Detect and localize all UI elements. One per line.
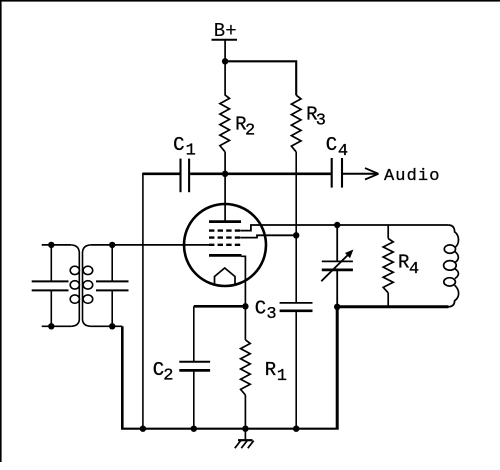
wire T1 to ground bus riser xyxy=(121,326,124,428)
label R2 xyxy=(235,114,255,141)
variable capacitor VC top lead xyxy=(336,225,338,261)
wire cathode node to C2 xyxy=(194,305,246,308)
capacitor C3 xyxy=(280,303,313,311)
wire ground bus xyxy=(121,428,339,430)
node bus C2 xyxy=(191,426,197,432)
node plate/audio junction xyxy=(222,171,228,177)
node tank top xyxy=(334,222,340,228)
svg-text:4: 4 xyxy=(409,260,419,279)
label R1 xyxy=(265,359,287,386)
svg-text:1: 1 xyxy=(277,367,287,386)
wire cathode lead xyxy=(241,256,245,306)
node bus R1/ground xyxy=(242,426,248,432)
capacitor C4 xyxy=(332,158,342,188)
wire audio line middle segment xyxy=(190,173,331,176)
wire R4 bottom lead xyxy=(387,293,389,307)
capacitor C2 xyxy=(179,362,210,371)
svg-text:3: 3 xyxy=(266,305,276,324)
wire B+ node to R3 branch xyxy=(225,61,296,95)
wire tank top line xyxy=(337,224,448,226)
variable capacitor VC bottom lead xyxy=(336,271,338,307)
wire C3 to ground bus xyxy=(295,312,297,429)
transformer T1 bottom line right xyxy=(91,325,123,327)
resistor R4 xyxy=(383,239,393,293)
border frame top xyxy=(0,0,500,2)
tube cathode xyxy=(209,254,242,257)
node T1 top right xyxy=(109,242,115,248)
tube grid 2 dashes xyxy=(209,236,240,238)
wire C1 left riser xyxy=(142,173,144,429)
svg-text:2: 2 xyxy=(245,121,255,140)
svg-text:R: R xyxy=(265,359,276,381)
wire audio line left segment xyxy=(143,173,180,176)
transformer T1 primary winding xyxy=(70,245,79,326)
wire R4 top lead xyxy=(387,225,389,239)
label C4 xyxy=(326,134,348,161)
wire audio arrow line xyxy=(343,173,378,175)
transformer T1 top line left xyxy=(42,244,71,246)
ground stub xyxy=(244,429,246,441)
label C3 xyxy=(255,298,277,325)
svg-text:3: 3 xyxy=(316,111,326,130)
node bus C3 xyxy=(293,426,299,432)
B+ terminal bar xyxy=(212,39,238,41)
capacitor C1 xyxy=(181,159,190,193)
node bus C1 riser xyxy=(140,426,146,432)
label R3 xyxy=(306,104,326,131)
resistor R2 xyxy=(220,95,230,152)
tube grid 1 (screen) dashes xyxy=(209,229,240,231)
inductor L1 coil xyxy=(444,225,459,307)
resistor R3 xyxy=(291,95,301,152)
svg-text:R: R xyxy=(398,252,409,274)
svg-text:Audio: Audio xyxy=(384,167,441,186)
node T1 bottom left xyxy=(48,323,54,329)
capacitor across secondary xyxy=(96,245,129,326)
svg-text:C: C xyxy=(326,134,337,156)
node tank bottom xyxy=(334,304,340,310)
wire C2 top lead xyxy=(193,306,195,361)
node T1 bottom right xyxy=(109,323,115,329)
svg-text:4: 4 xyxy=(338,142,348,161)
wire R1 top lead xyxy=(244,306,246,340)
svg-text:C: C xyxy=(255,298,266,320)
border frame left xyxy=(0,0,2,462)
wire B+ down to node xyxy=(224,41,226,96)
tube grid 3 (control) dashes xyxy=(209,244,240,246)
audio arrow head xyxy=(365,168,379,179)
svg-text:1: 1 xyxy=(186,142,196,161)
wire control grid to transformer xyxy=(91,244,209,246)
wire grid2 to R3 line xyxy=(240,235,296,237)
capacitor across primary xyxy=(32,245,69,326)
vacuum tube V1 envelope xyxy=(184,204,266,286)
tube plate xyxy=(209,220,241,223)
resistor R1 xyxy=(241,340,251,395)
label C2 xyxy=(153,359,174,385)
wire tank bottom line xyxy=(337,305,448,308)
wire R3 column down through C3 xyxy=(295,152,297,302)
node B+ junction xyxy=(222,58,228,64)
wire C2 bottom lead xyxy=(193,371,195,429)
wire R2 bottom to plate line xyxy=(224,151,226,221)
wire grid1 to tank top xyxy=(240,225,337,231)
node grid2/R3 xyxy=(293,232,299,238)
svg-text:C: C xyxy=(173,134,184,156)
transformer T1 bottom line left xyxy=(42,325,71,327)
tube filament xyxy=(215,268,236,286)
label R4 xyxy=(398,252,419,279)
node T1 top left xyxy=(48,242,54,248)
transformer T1 secondary winding xyxy=(83,245,93,326)
variable capacitor VC arrow xyxy=(321,250,353,282)
variable capacitor VC plates xyxy=(322,261,353,270)
ground symbol xyxy=(235,440,254,448)
svg-text:2: 2 xyxy=(163,367,173,386)
wire R1 bottom lead xyxy=(244,395,246,429)
wire tank to ground bus riser xyxy=(336,307,339,429)
label C1 xyxy=(173,134,196,161)
node cathode junction xyxy=(242,303,248,309)
